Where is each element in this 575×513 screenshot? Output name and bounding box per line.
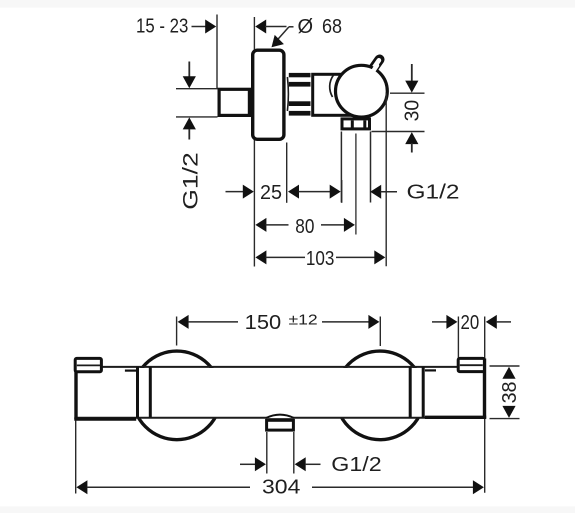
right wall block <box>425 358 486 418</box>
svg-text:304: 304 <box>262 477 300 499</box>
extension line escutcheon back <box>286 143 288 203</box>
svg-text:G1/2: G1/2 <box>331 454 381 476</box>
bar bottom edge <box>76 417 485 419</box>
dimension 103 <box>255 248 385 270</box>
extension line 304 left <box>75 421 77 494</box>
center outlet stub <box>266 415 294 430</box>
handle circle <box>336 65 388 117</box>
svg-text:G1/2: G1/2 <box>179 152 202 210</box>
outlet center line <box>355 134 357 235</box>
dimension G1/2 right (outlet) <box>370 182 459 204</box>
svg-text:80: 80 <box>295 216 314 238</box>
top gray band <box>0 0 575 8</box>
svg-text:Ø: Ø <box>298 16 314 38</box>
lever stub <box>370 60 380 74</box>
dimension 150 +-12 <box>178 311 380 334</box>
dimension 20 <box>432 312 511 334</box>
right escutcheon circle <box>336 351 425 440</box>
dimension 38 <box>490 366 521 419</box>
left escutcheon circle <box>133 351 222 440</box>
extension line right circle center <box>379 317 381 347</box>
extension line 103 right <box>385 93 387 266</box>
escutcheon (Ø68 disc, side view) <box>253 50 284 139</box>
outlet pipe lines <box>340 132 342 203</box>
extension line wall plane <box>253 17 255 267</box>
dimension G1/2 left (pipe thread) <box>176 62 218 210</box>
lever throat opening <box>373 65 377 70</box>
stub extension lines <box>266 432 268 474</box>
right union nut <box>410 367 423 418</box>
svg-text:103: 103 <box>306 248 335 270</box>
svg-text:38: 38 <box>499 382 521 404</box>
svg-text:G1/2: G1/2 <box>407 182 460 204</box>
bottom gray band <box>0 506 575 513</box>
dimension 80 <box>255 216 355 238</box>
left wall block <box>74 358 136 419</box>
svg-text:68: 68 <box>322 16 342 38</box>
svg-text:15 - 23: 15 - 23 <box>136 16 188 38</box>
outlet nut <box>342 119 370 129</box>
dimension 30 <box>372 64 425 153</box>
escutcheon back arc <box>287 77 288 111</box>
dimension 304 <box>76 477 484 499</box>
knurled union nut <box>289 73 311 116</box>
dimension 15-23 <box>136 16 287 38</box>
svg-text:150: 150 <box>245 312 282 334</box>
left union pipe step <box>125 370 136 372</box>
extension line wall front <box>216 15 218 89</box>
extension line mid span <box>341 180 343 203</box>
valve body <box>313 74 355 115</box>
dimension 25 <box>226 182 341 204</box>
pipe stub (wall supply) <box>219 89 249 115</box>
bar top edge <box>76 366 485 368</box>
svg-text:±12: ±12 <box>289 311 318 328</box>
left union nut <box>138 367 151 418</box>
handle sleeve arc <box>330 75 334 97</box>
svg-text:25: 25 <box>260 182 282 204</box>
svg-text:20: 20 <box>461 312 480 334</box>
dimension G1/2 bottom <box>240 454 382 476</box>
svg-text:30: 30 <box>402 100 424 122</box>
extension line left circle center <box>176 317 178 346</box>
bar body mask <box>75 368 485 417</box>
extension line 20 left <box>457 317 459 362</box>
dimension Ø68 leader <box>272 16 343 47</box>
extension line right end (20/304) <box>484 317 486 493</box>
right union pipe step <box>425 369 436 371</box>
